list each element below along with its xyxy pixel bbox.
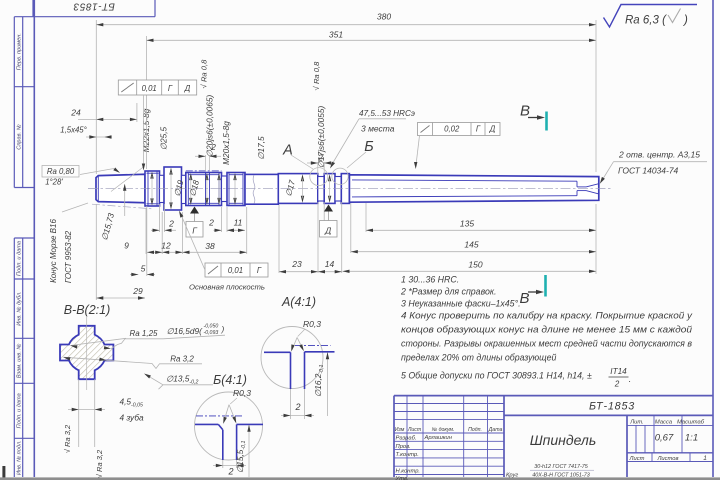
svg-text:0,01: 0,01: [228, 266, 243, 275]
svg-text:2 отв. центр. А3,15: 2 отв. центр. А3,15: [618, 150, 700, 160]
svg-text:Пров.: Пров.: [396, 444, 411, 450]
svg-text:Подп. и дата: Подп. и дата: [17, 241, 23, 276]
svg-text:пределах 20% от длины образующ: пределах 20% от длины образующей: [401, 353, 556, 363]
svg-text:√ Ra 3,2: √ Ra 3,2: [95, 449, 104, 478]
svg-text:стороны. Разрывы окрашенных ме: стороны. Разрывы окрашенных мест средней…: [401, 339, 692, 349]
svg-text:): ): [221, 324, 225, 334]
svg-text:2: 2: [210, 142, 216, 152]
svg-text:М22х1,5-8g: М22х1,5-8g: [141, 108, 151, 152]
svg-text:24: 24: [70, 108, 81, 118]
svg-text:11: 11: [234, 217, 243, 227]
svg-text:Утв.: Утв.: [395, 476, 409, 480]
svg-text:∅16,5d9(: ∅16,5d9(: [167, 326, 204, 336]
svg-text:∅25,5: ∅25,5: [159, 126, 169, 150]
svg-text:Лит.: Лит.: [629, 419, 644, 425]
svg-text:А: А: [282, 143, 293, 159]
svg-text:IT14: IT14: [610, 367, 627, 376]
svg-text:Разраб.: Разраб.: [396, 436, 417, 442]
svg-text:9: 9: [124, 241, 129, 251]
svg-text:3 Неуказанные фаски–1х45°.: 3 Неуказанные фаски–1х45°.: [401, 299, 521, 309]
svg-text:1°28': 1°28': [45, 178, 63, 187]
svg-text:Ra 0,80: Ra 0,80: [47, 167, 75, 176]
svg-text:Перв. примен.: Перв. примен.: [17, 33, 23, 70]
svg-text:38: 38: [205, 241, 215, 251]
svg-text:В-В(2:1): В-В(2:1): [64, 303, 111, 317]
svg-text:Т.контр.: Т.контр.: [396, 452, 419, 458]
svg-text:3 места: 3 места: [361, 124, 395, 134]
svg-text:Ra 6,3 (: Ra 6,3 (: [625, 15, 667, 27]
svg-text:150: 150: [468, 260, 482, 270]
svg-text:0,01: 0,01: [142, 84, 157, 93]
svg-text:Д: Д: [324, 226, 331, 236]
svg-text:Изм: Изм: [395, 427, 405, 433]
svg-text:√ Ra 0,8: √ Ra 0,8: [200, 59, 209, 88]
svg-text:29: 29: [132, 286, 143, 296]
svg-text:30-h12 ГОСТ 7417-75: 30-h12 ГОСТ 7417-75: [534, 464, 589, 470]
svg-text:-0,093: -0,093: [204, 330, 219, 336]
svg-text:Шпиндель: Шпиндель: [530, 432, 596, 448]
svg-text:2: 2: [317, 152, 323, 162]
svg-text:Листов: Листов: [656, 456, 678, 462]
svg-text:R0,3: R0,3: [233, 388, 251, 398]
svg-text:-0,050: -0,050: [204, 324, 219, 330]
svg-text:145: 145: [464, 240, 478, 250]
svg-text:Масса: Масса: [655, 419, 673, 425]
svg-text:Б(4:1): Б(4:1): [213, 373, 247, 387]
svg-text:47,5...53 HRCэ: 47,5...53 HRCэ: [359, 109, 415, 118]
svg-text:Справ. №: Справ. №: [17, 124, 23, 149]
svg-text:Круг: Круг: [506, 473, 518, 479]
svg-text:23: 23: [291, 259, 302, 269]
svg-text:√ Ra 0,8: √ Ra 0,8: [312, 61, 321, 90]
svg-text:Инв. № дубл.: Инв. № дубл.: [17, 291, 23, 325]
svg-text:Лист: Лист: [407, 427, 422, 433]
svg-text:2: 2: [614, 380, 620, 389]
svg-text:Конус Морзе В16: Конус Морзе В16: [49, 219, 58, 283]
svg-text:4 Конус проверить по калибру н: 4 Конус проверить по калибру на краску. …: [401, 311, 693, 321]
svg-text:М20х1,5-8g: М20х1,5-8g: [221, 121, 231, 165]
svg-text:40Х-В-Н ГОСТ 1051-73: 40Х-В-Н ГОСТ 1051-73: [532, 472, 589, 478]
svg-text:Н.контр.: Н.контр.: [396, 468, 421, 474]
svg-text:∅17,5: ∅17,5: [256, 136, 266, 160]
svg-text:ГОСТ 9953-82: ГОСТ 9953-82: [64, 230, 73, 283]
svg-text:Ra 3,2: Ra 3,2: [170, 354, 194, 363]
svg-text:Подп. и дата: Подп. и дата: [17, 393, 23, 428]
svg-text:2: 2: [208, 218, 214, 228]
svg-text:Арлашкин: Арлашкин: [424, 435, 453, 441]
svg-text:2 *Размер для справок.: 2 *Размер для справок.: [400, 287, 496, 297]
svg-text:Д: Д: [489, 125, 496, 134]
svg-text:концов образующих конус на дли: концов образующих конус на длине не мене…: [401, 325, 692, 335]
svg-text:1:1: 1:1: [685, 433, 698, 444]
svg-text:Подп.: Подп.: [468, 427, 482, 433]
svg-text:Лист: Лист: [629, 456, 645, 462]
svg-text:2: 2: [168, 218, 174, 228]
svg-text:0,02: 0,02: [444, 125, 460, 134]
svg-text:1 30...36 HRC.: 1 30...36 HRC.: [401, 275, 459, 285]
svg-text:Основная плоскость: Основная плоскость: [189, 283, 265, 292]
svg-text:R0,3: R0,3: [303, 319, 321, 329]
svg-text:2: 2: [227, 467, 233, 477]
svg-text:Инв. № подл.: Инв. № подл.: [17, 440, 23, 475]
svg-text:380: 380: [377, 12, 391, 22]
svg-text:135: 135: [460, 218, 474, 228]
svg-text:БТ-1853: БТ-1853: [73, 1, 115, 12]
svg-text:351: 351: [329, 29, 343, 39]
svg-text:5 Общие допуски по ГОСТ 30893.: 5 Общие допуски по ГОСТ 30893.1 Н14, h14…: [401, 371, 592, 381]
svg-text:√ Ra 3,2: √ Ra 3,2: [63, 424, 72, 453]
svg-text:Масштаб: Масштаб: [677, 419, 705, 425]
svg-text:Взам. инв. №: Взам. инв. №: [17, 343, 23, 378]
svg-text:2: 2: [294, 402, 300, 412]
svg-text:Дата: Дата: [488, 427, 503, 433]
svg-text:1,5х45°: 1,5х45°: [60, 125, 87, 134]
svg-text:Д: Д: [184, 84, 191, 93]
svg-text:5: 5: [141, 263, 146, 273]
svg-text:ГОСТ 14034-74: ГОСТ 14034-74: [618, 166, 679, 176]
svg-text:БТ-1853: БТ-1853: [589, 401, 635, 413]
svg-text:Ra 1,25: Ra 1,25: [129, 329, 158, 338]
svg-text:№ докум.: № докум.: [432, 427, 455, 433]
svg-text:А(4:1): А(4:1): [281, 295, 316, 309]
svg-text:4 зуба: 4 зуба: [120, 413, 144, 423]
svg-text:14: 14: [325, 259, 335, 269]
svg-text:12: 12: [161, 241, 171, 251]
svg-text:0,67: 0,67: [655, 433, 674, 444]
svg-text:1: 1: [703, 455, 707, 462]
svg-text:.: .: [629, 374, 631, 384]
